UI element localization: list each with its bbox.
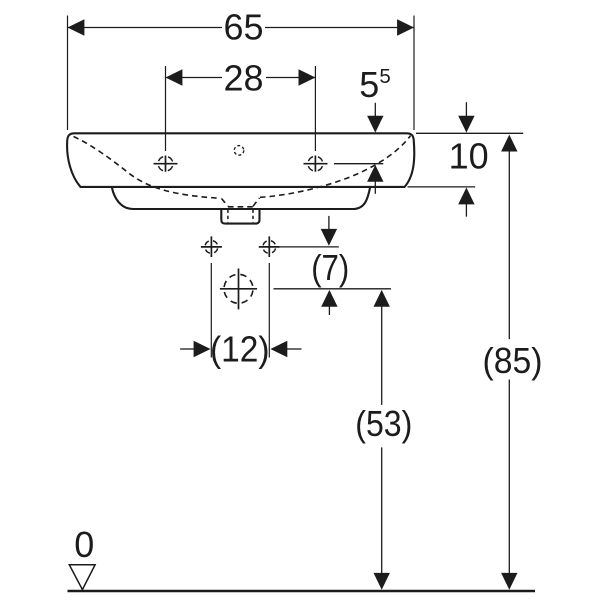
svg-text:0: 0 — [74, 524, 94, 565]
dimension (85): vertical line lower — [508, 380, 510, 575]
dimension (12): right arrow tail — [286, 348, 302, 350]
siphon/trap box — [221, 209, 259, 224]
svg-text:10: 10 — [449, 136, 489, 177]
arrowhead 10 up — [458, 188, 474, 205]
arrowhead 10 down — [458, 116, 474, 133]
arrowhead 28 left — [166, 69, 183, 85]
dimension (12): extension line right — [268, 263, 270, 358]
arrowhead (53) down — [374, 573, 390, 590]
svg-text:65: 65 — [223, 7, 263, 48]
basin interior dashed dip into trap — [222, 198, 260, 207]
drain hole dashed circle — [224, 274, 253, 303]
left tap hole cross — [154, 156, 178, 172]
tap hole leader line — [334, 163, 383, 165]
dimension 28: extension line left — [165, 66, 167, 151]
basin interior dashed rim curve right branch — [260, 136, 411, 198]
arrowhead 5.5 down — [367, 116, 383, 133]
basin interior dashed rim curve left branch — [74, 137, 221, 199]
dimension 28: dimension line — [166, 77, 316, 79]
trap dashed inner verticals — [228, 210, 253, 223]
dimension 10: top extension line — [416, 132, 523, 134]
svg-text:(85): (85) — [483, 340, 543, 381]
arrowhead 5.5 up — [367, 165, 383, 182]
arrowhead (85) down — [501, 573, 517, 590]
svg-text:(12): (12) — [210, 329, 270, 370]
arrowhead 65 right — [397, 19, 414, 35]
dimension 65: extension line right — [413, 16, 415, 131]
right tap hole dashed circle — [308, 156, 323, 171]
dimension 10: upper arrow shaft — [465, 102, 467, 116]
arrowhead (7) down — [321, 229, 337, 246]
dimension (53): vertical line upper — [381, 305, 383, 405]
washbasin lower tier outline — [112, 188, 370, 209]
washbasin upper body outline — [67, 133, 414, 187]
drain hole cross — [220, 269, 257, 310]
arrowhead 28 right — [299, 69, 316, 85]
floor line — [68, 590, 536, 593]
svg-text:28: 28 — [223, 57, 263, 98]
dimension (85): vertical line upper — [508, 151, 510, 340]
dimension (12): extension line left — [210, 263, 212, 358]
dimension (7): lower arrow shaft — [328, 306, 330, 316]
dimension (53): vertical line lower — [381, 447, 383, 574]
dimension 10: lower arrow shaft — [465, 204, 467, 217]
svg-text:(53): (53) — [355, 403, 412, 444]
arrowhead (53) up — [374, 290, 390, 307]
dimension (12): left arrow tail — [180, 348, 195, 350]
dimension 10: bottom extension line — [408, 186, 476, 188]
left fixing hole dashed circle — [205, 241, 218, 254]
svg-text:(7): (7) — [311, 247, 349, 288]
dimension 65: dimension line — [68, 27, 415, 29]
dimension (7): bottom reference line — [274, 288, 392, 290]
arrowhead (85) up — [501, 135, 517, 152]
left tap hole dashed circle — [158, 156, 173, 171]
right tap hole cross — [304, 156, 328, 172]
right fixing hole dashed circle — [263, 241, 276, 254]
arrowhead 65 left — [68, 19, 85, 35]
dimension 28: extension line right — [314, 66, 316, 151]
arrowhead (12) right-pointing — [194, 341, 211, 357]
dimension 5.5: upper arrow shaft — [374, 103, 376, 117]
dimension 65: extension line left — [67, 16, 69, 131]
dimension 5.5: lower arrow shaft — [374, 180, 376, 194]
left fixing hole cross — [201, 236, 222, 257]
right fixing hole cross — [259, 236, 280, 257]
dimension (7): upper arrow shaft — [328, 216, 330, 231]
arrowhead (12) left-pointing — [270, 341, 287, 357]
overflow dashed circle — [234, 146, 244, 156]
dimension (7): top reference line — [280, 246, 339, 248]
arrowhead (7) up — [321, 290, 337, 307]
datum triangle — [69, 565, 95, 590]
